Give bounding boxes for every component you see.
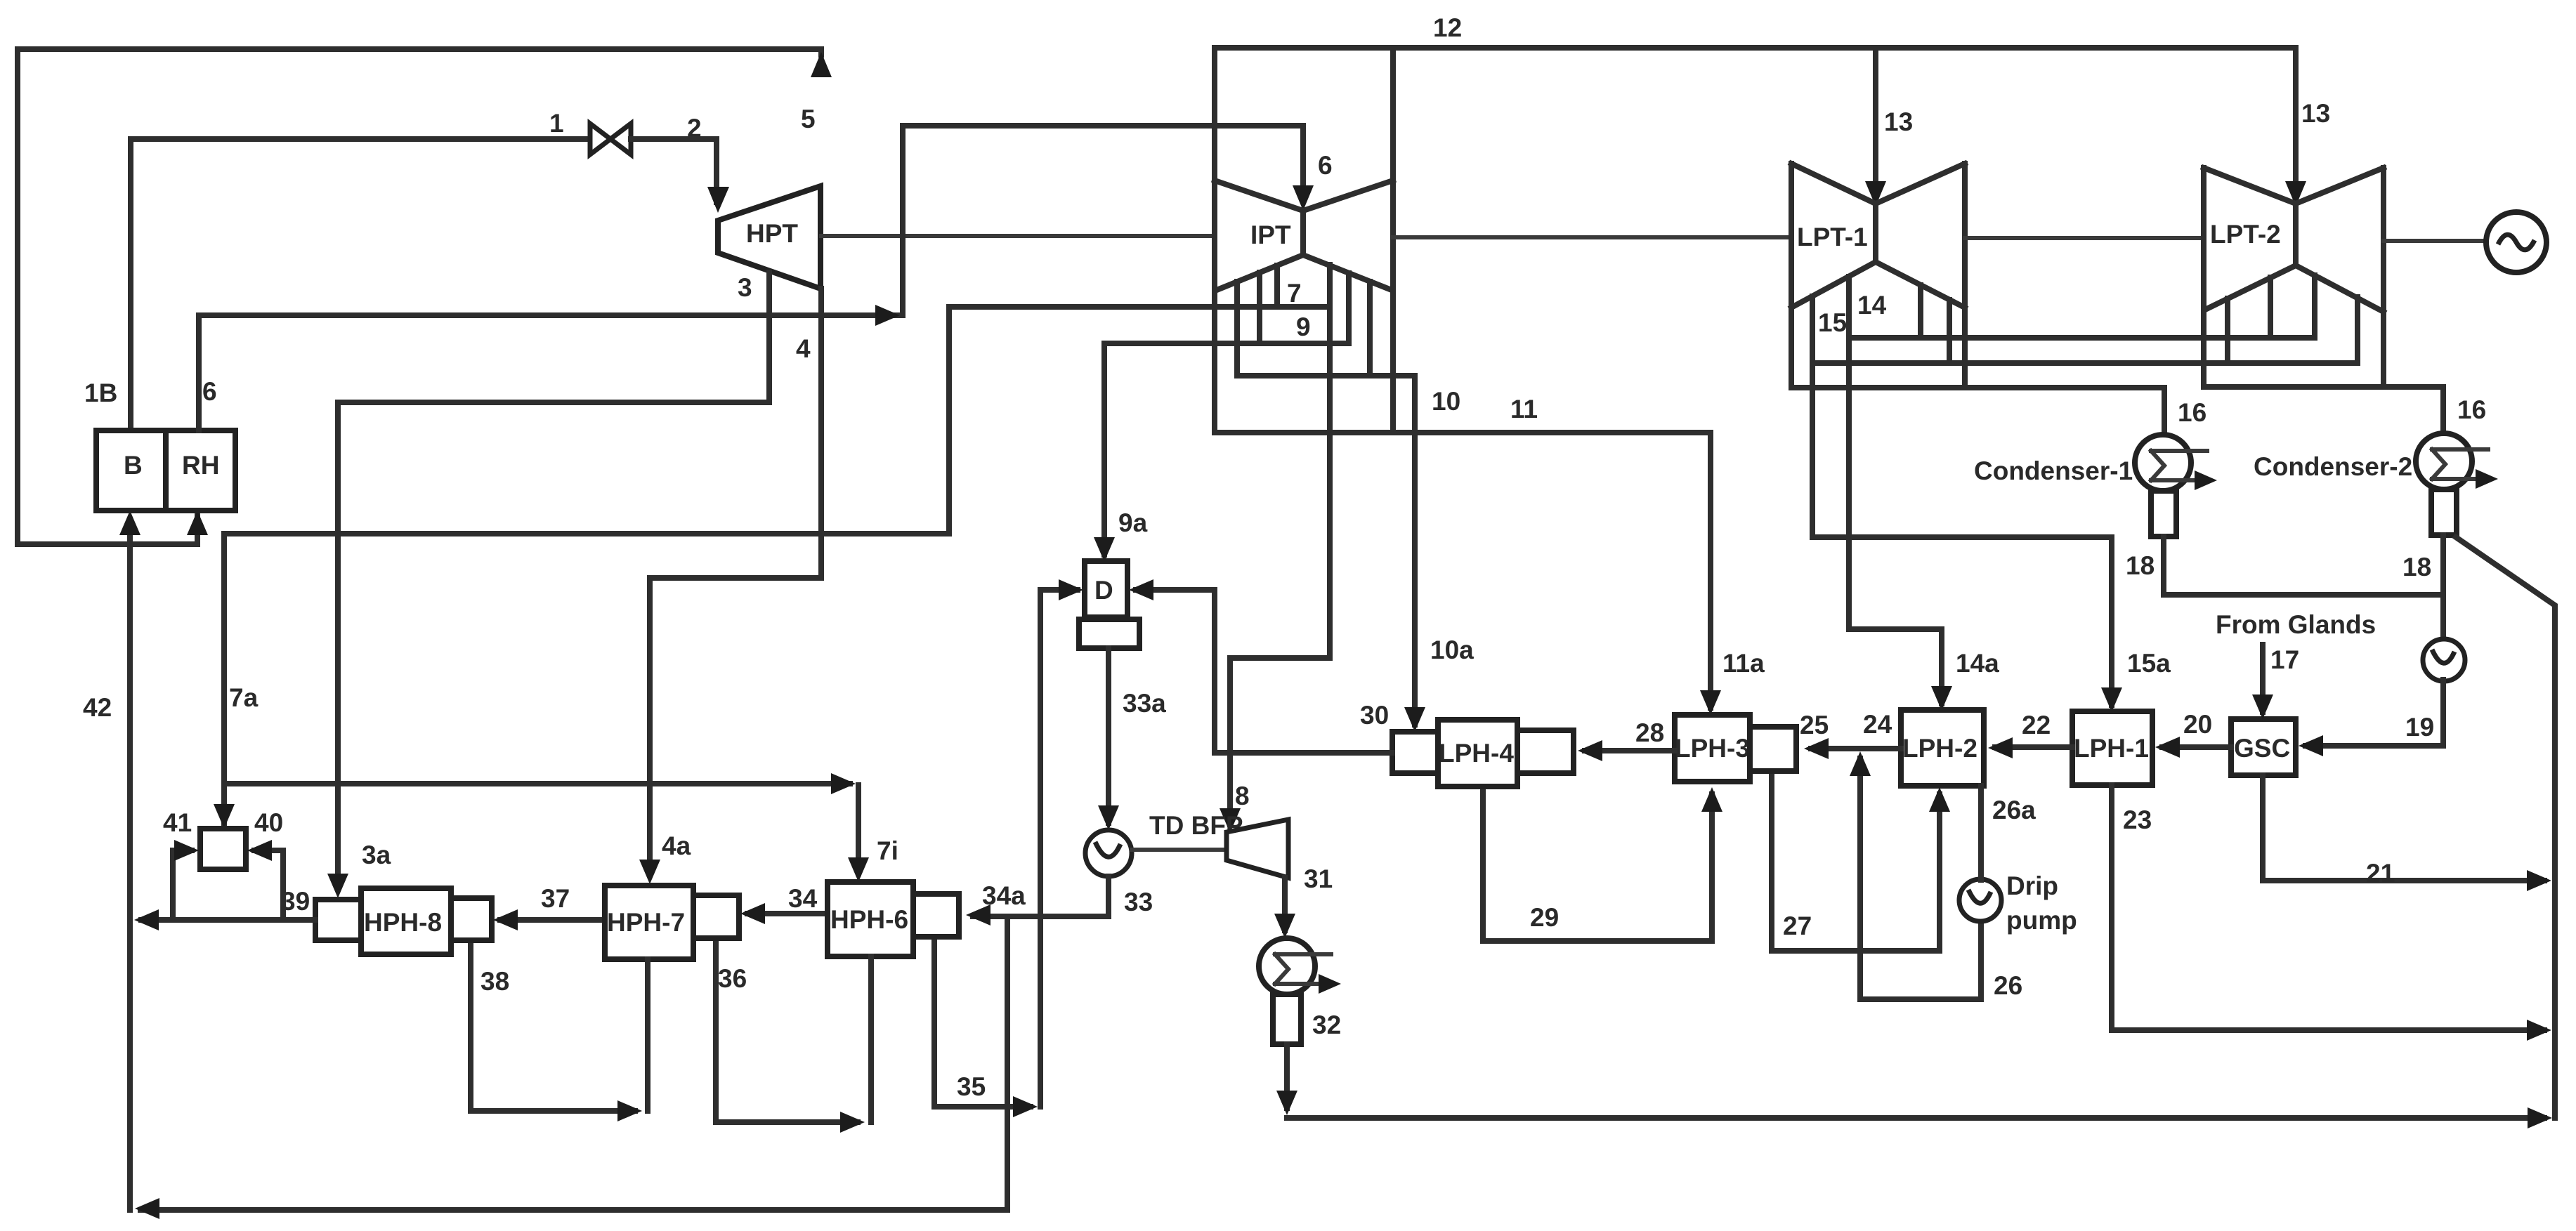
turbine HPT [718,186,820,289]
heater LPH-3 right flange [1750,727,1796,771]
wire line 26 drip pump discharge joining feed line [1860,758,1981,999]
wire feedwater riser 42 to boiler [127,520,133,1210]
wire line 31 BFP turbine exhaust [1282,878,1288,930]
heater LPH-4 box [1438,720,1517,786]
svg-text:25: 25 [1800,711,1829,739]
svg-text:11a: 11a [1722,649,1765,678]
condensate pump CEP [2440,593,2446,640]
svg-text:37: 37 [541,884,570,913]
turbine IPT double-flow wedge [1215,180,1393,211]
deaerator storage tank [1079,619,1139,648]
svg-text:36: 36 [718,964,747,993]
wire shaft IPT to LPT-1 [1393,235,1791,239]
svg-text:13: 13 [1884,107,1913,136]
heater LPH-3 box [1675,715,1750,782]
wire extraction 9 header down to deaerator (9a) [1104,343,1349,555]
svg-text:15a: 15a [2127,649,2171,678]
wire line 32 drain to long drain header [1284,1044,1290,1108]
wire line 24/25 LPH-2 to LPH-3 [1811,746,1901,751]
svg-text:HPH-7: HPH-7 [607,908,685,937]
heater LPH-1 box [2072,711,2152,785]
arrow 3a into HPH-8 flange [327,874,348,898]
svg-text:5: 5 [801,105,816,133]
wire line 37 HPH-7 to HPH-8 [500,917,605,923]
arrow 8 into BFP turbine [1220,808,1241,833]
wire line 13 down to LPT-1 [1873,48,1878,197]
svg-text:13: 13 [2301,99,2330,128]
svg-text:26: 26 [1994,971,2022,1000]
wire line 17 from glands into GSC [2260,645,2266,712]
wire line 30 LPH-4 to deaerator [1136,590,1392,753]
svg-text:41: 41 [163,808,192,837]
wire line 22 LPH-1 to LPH-2 [1995,744,2072,750]
wire deaerator left inlet from line 35 riser [1040,590,1078,1107]
wire line 33a deaerator to BFP suction [1106,648,1111,823]
wire line 12 IPT top header to LPT-1 and LPT-2 [1215,45,2296,51]
wire line 27 LPH-3 drain to LPH-2 [1772,771,1940,951]
svg-text:Condenser-1: Condenser-1 [1974,456,2133,485]
svg-text:22: 22 [2022,711,2051,739]
wire line 6 RH to IPT [199,126,1303,430]
arrow 14a into LPH-2 top [1931,686,1952,711]
svg-text:26a: 26a [1992,796,2036,824]
svg-text:6: 6 [202,377,217,406]
wire top boundary line 5 (HPT to reheater loop) [18,49,821,544]
svg-text:LPT-2: LPT-2 [2210,220,2281,249]
wire line 23 LPH-1 drain to outfall [2112,785,2544,1030]
svg-text:27: 27 [1783,911,1812,940]
svg-text:31: 31 [1304,864,1333,893]
svg-text:14: 14 [1857,291,1887,320]
wire line 13 down to LPT-2 [2293,48,2299,197]
svg-text:29: 29 [1530,903,1559,932]
arrow into RH bottom [187,511,208,535]
svg-text:6: 6 [1318,151,1333,180]
wire line 26a LPH-2 drain into drip pump [1978,786,1984,880]
svg-text:LPH-4: LPH-4 [1439,739,1514,768]
heater HPH-7 right flange [693,895,739,938]
condenser of BFP turbine [1259,938,1315,994]
wire extraction 9 drops [1257,272,1262,343]
generator [2486,212,2546,272]
wire line 21 GSC drain to outfall [2263,775,2544,881]
svg-text:32: 32 [1312,1011,1341,1039]
arrow 7i into HPH-6 top [848,857,869,882]
wire line 18 from condenser-2 [2440,535,2446,593]
arrow 15a into LPH-1 top [2101,687,2122,712]
svg-text:16: 16 [2457,395,2486,424]
heater LPH-4 left flange [1392,732,1438,773]
svg-text:HPT: HPT [746,219,798,248]
arrow on line 6 before corner [875,305,900,326]
condenser C2 hotwell [2431,489,2457,535]
svg-text:17: 17 [2270,645,2299,674]
wire line 35 HPH-6 flange drain to deaerator riser [934,937,1031,1107]
wire extraction 7 header to HPH-6 via 7i/7a [224,307,1330,823]
drip pump [1959,879,2001,921]
wire extraction 10 drops [1234,282,1240,376]
wire line 36 HPH-7 flange drain joining HPH-6 drain [716,938,858,1122]
wire line 3 HPT exhaust to HPH-8 (3a) [338,272,769,889]
svg-text:34: 34 [788,884,818,913]
svg-text:10: 10 [1432,387,1460,416]
svg-text:8: 8 [1235,782,1250,810]
wire extraction 8 to TD BFP [1230,265,1330,824]
svg-text:LPT-1: LPT-1 [1797,223,1868,251]
svg-text:18: 18 [2402,553,2431,581]
svg-text:Drip: Drip [2006,871,2058,900]
arrow 13 into LPT-1 [1865,181,1886,206]
svg-text:From Glands: From Glands [2216,610,2376,639]
wire extraction 10 header down to LPH-4 (10a) [1237,376,1415,725]
svg-text:LPH-2: LPH-2 [1902,734,1977,763]
wire line 20 GSC to LPH-1 [2162,744,2231,750]
wire long drain header to right outfall [1287,1115,2544,1121]
wire condenser-2 drain diagonal to right drain header [2456,537,2555,1118]
arrow 13 into LPT-2 [2285,181,2306,206]
svg-text:30: 30 [1360,701,1389,730]
pump TD BFP [1085,830,1132,876]
heater HPH-8 left flange [315,900,361,940]
wire left loop of small box to feed line [173,850,192,920]
svg-text:12: 12 [1433,13,1462,42]
svg-text:7: 7 [1287,279,1302,308]
svg-text:20: 20 [2183,710,2212,739]
wire riser into RH bottom [195,515,200,544]
svg-text:35: 35 [957,1072,986,1101]
condenser C1 [2135,435,2191,491]
wire main steam line 1 from boiler to valve [131,139,590,430]
arrow line 6 into IPT [1293,185,1314,211]
svg-text:HPH-6: HPH-6 [830,905,908,934]
svg-text:3a: 3a [362,841,391,869]
svg-text:1B: 1B [84,378,117,407]
arrow line 5 up into top line [811,52,832,77]
wire right loop of small box to feed line [254,850,283,920]
svg-text:19: 19 [2405,713,2434,742]
condenser C2 [2416,433,2472,489]
boiler B box [96,430,166,511]
wire LPT-1 exhaust to condenser-1 [1791,388,2164,437]
svg-text:24: 24 [1863,710,1892,739]
wire shaft HPT to IPT [821,234,1215,238]
wire line 33 BFP discharge to HPH-6 [973,876,1109,916]
heater HPH-6 box [828,882,913,956]
arrow 4a into HPH-7 top [639,860,660,884]
arrow 11a into LPH-3 top [1700,690,1721,715]
svg-text:7a: 7a [229,683,259,712]
svg-text:RH: RH [182,451,219,480]
svg-text:16: 16 [2178,398,2206,427]
wire line 28 LPH-3 to LPH-4 [1585,748,1675,753]
svg-text:IPT: IPT [1250,220,1291,249]
svg-text:B: B [124,451,143,480]
heater HPH-7 box [605,886,693,959]
valve (bowtie) [590,124,610,154]
svg-text:4a: 4a [662,831,691,860]
svg-text:11: 11 [1510,395,1538,423]
arrow 9a into D top [1094,537,1115,562]
condenser C1 hotwell [2151,491,2176,536]
svg-text:40: 40 [254,808,283,837]
svg-text:28: 28 [1635,718,1664,747]
svg-text:33: 33 [1124,888,1153,916]
wire line 2 valve to HPT inlet [631,139,717,202]
svg-text:14a: 14a [1956,649,1999,678]
svg-text:9: 9 [1296,312,1311,341]
svg-text:Condenser-2: Condenser-2 [2254,452,2412,481]
svg-text:3: 3 [738,273,752,302]
svg-text:9a: 9a [1118,508,1148,537]
wire extraction 15 collector from both LPTs down to LPH-1 (15a) [1812,296,2112,705]
heater HPH-8 right flange [451,898,492,940]
arrow into HPT inlet [707,187,729,213]
svg-text:34a: 34a [982,881,1026,910]
wire line 29 LPH-4 drain to LPH-3 [1483,786,1712,941]
wire line 34 HPH-6 to HPH-7 [747,911,828,916]
svg-text:4: 4 [796,334,811,363]
BFP condenser hotwell [1273,994,1301,1044]
svg-text:pump: pump [2006,906,2077,935]
arrow into B bottom [119,511,140,535]
arrow 10a into LPH-4 flange [1404,707,1425,732]
svg-text:21: 21 [2366,859,2395,888]
svg-text:LPH-3: LPH-3 [1675,734,1750,763]
arrow 19 into GSC [2299,735,2323,756]
heat exchanger 40/41 small box [200,829,246,869]
wire extraction 7 drop [1274,265,1280,307]
turbine IPT casing box [1212,48,1217,433]
wire line 18 from condenser-1 [2164,536,2443,595]
heater HPH-6 right flange [913,894,959,937]
deaerator D box [1085,561,1127,617]
heater LPH-4 right flange [1517,730,1574,773]
svg-text:D: D [1094,576,1113,605]
arrow 7i corner [831,773,856,794]
svg-text:33a: 33a [1123,689,1166,718]
svg-text:42: 42 [83,693,112,722]
wire shaft LPT-1 to LPT-2 [1965,236,2204,240]
turbine LPT-2 [2201,168,2206,387]
svg-text:23: 23 [2123,805,2152,834]
wire LPT-2 exhaust to condenser-2 [2205,387,2443,435]
heater LPH-2 box [1901,710,1984,786]
svg-text:38: 38 [480,967,509,996]
wire line 38 HPH-8 flange drain joining HPH-7 drain [471,940,635,1111]
svg-text:HPH-8: HPH-8 [364,908,442,937]
heater HPH-8 box [361,888,451,954]
svg-text:1: 1 [549,109,564,138]
heater GSC box [2231,719,2296,775]
wire shaft LPT-2 to generator [2384,239,2486,243]
reheater RH box [166,430,235,511]
svg-text:7i: 7i [877,836,898,865]
wire line 39 HPH-8 outlet to boiler feed riser [141,917,315,923]
arrow 7a into small heater box [214,804,235,829]
wire extraction 14 collector from both LPTs down to LPH-2 (14a) [1849,277,1942,704]
wire HP heater bypass from line 33 to boiler feed riser [140,916,1007,1210]
wire branch 7i to HPH-6 [224,781,850,786]
wire line 4 HPT exhaust to HPH-7 (4a) [650,289,821,875]
svg-text:18: 18 [2126,551,2155,580]
wire BFP pump shaft link to its turbine [1132,848,1227,852]
svg-text:GSC: GSC [2234,734,2290,763]
svg-text:15: 15 [1818,308,1847,337]
wire line 11 IPT bottom header to LPH-3 (11a) [1215,433,1711,708]
turbine LPT-1 [1789,164,1794,388]
turbine of TD BFP [1227,819,1288,878]
wire line 19 pump to GSC [2306,680,2443,746]
svg-text:10a: 10a [1430,636,1474,664]
svg-text:LPH-1: LPH-1 [2074,734,2149,763]
